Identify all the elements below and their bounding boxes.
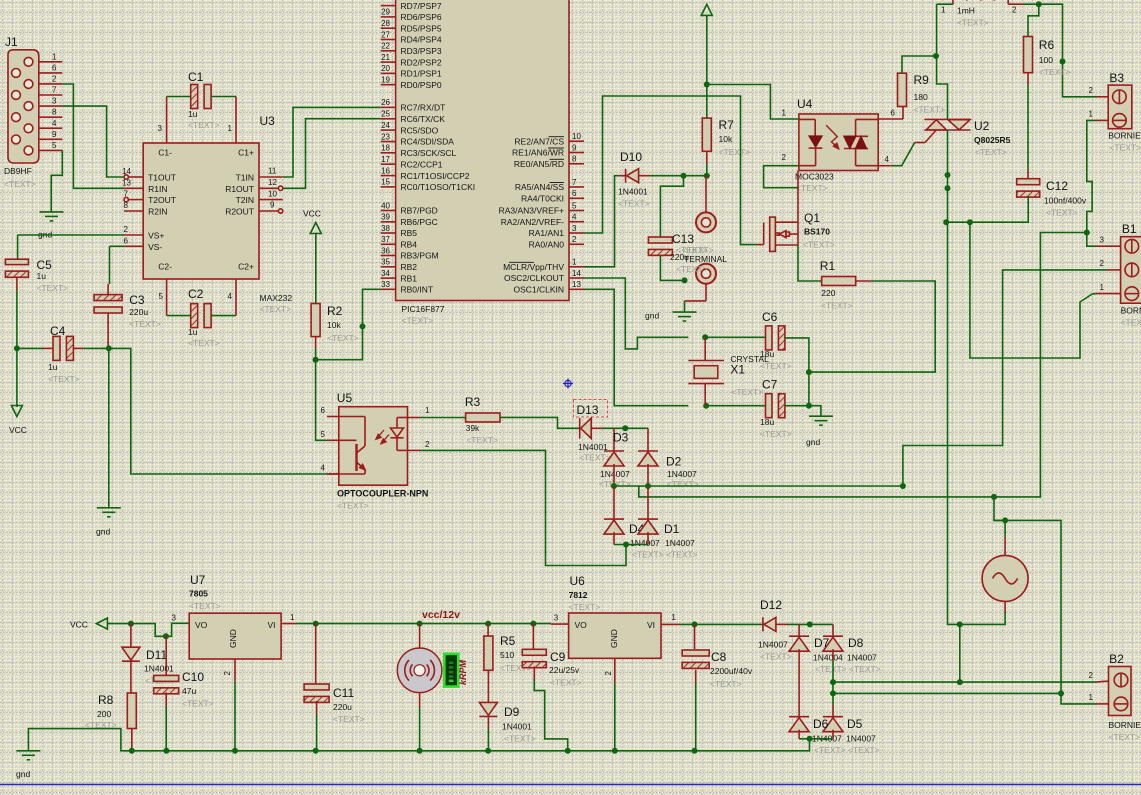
svg-text:RD7/PSP7: RD7/PSP7 [401, 1, 442, 11]
svg-text:10: 10 [572, 132, 581, 141]
wire U4 pin4 to triac gate [892, 143, 915, 166]
U7 pin2 stub [223, 659, 235, 681]
U3 pin 5 number [159, 292, 164, 301]
crystal X1 [688, 337, 724, 405]
U2 text [975, 147, 1007, 157]
label D9 value 1N4001 [502, 722, 532, 732]
wire C10 bottom green [165, 706, 167, 751]
wire OSC1 to crystal [584, 289, 688, 405]
wire B3 pin1 down [1087, 120, 1096, 246]
svg-text:VCC: VCC [9, 425, 27, 435]
label C10 [182, 670, 204, 684]
svg-text:2: 2 [52, 74, 57, 83]
U1 text [402, 316, 434, 326]
C11 text [333, 714, 365, 724]
svg-text:<TEXT>: <TEXT> [618, 199, 650, 209]
label J1 [5, 35, 18, 49]
svg-text:D1: D1 [664, 522, 680, 536]
svg-text:RB6/PGC: RB6/PGC [401, 217, 438, 227]
svg-text:16: 16 [381, 166, 390, 175]
svg-text:<TEXT>: <TEXT> [676, 264, 708, 274]
svg-text:1u: 1u [188, 327, 198, 337]
svg-text:1N4007: 1N4007 [665, 538, 695, 548]
svg-text:U5: U5 [337, 391, 353, 405]
node on RB0 wire [360, 323, 366, 329]
wire C4 right to U5 pin4 [84, 348, 339, 474]
label R5 value 510 [500, 650, 514, 660]
svg-text:RB3/PGM: RB3/PGM [401, 251, 439, 261]
wire motor bottom [419, 693, 421, 707]
svg-text:RA5/AN4/SS: RA5/AN4/SS [515, 182, 564, 192]
resistor R8 [127, 693, 136, 729]
C6 text [760, 361, 792, 371]
C3 top stub [107, 284, 109, 295]
D8 top stub [832, 624, 834, 636]
svg-text:100nf/400v: 100nf/400v [1044, 196, 1087, 206]
svg-text:RE1/AN6/WR: RE1/AN6/WR [512, 148, 564, 158]
U4 pin6 stub [878, 109, 903, 120]
label D3 value 1N4007 [600, 469, 630, 479]
wire gnd net VS+ [18, 234, 124, 236]
U6 pin1 stub [661, 613, 680, 624]
svg-text:26: 26 [381, 98, 390, 107]
C8 text [710, 679, 742, 689]
U6 text [569, 602, 601, 612]
node mid wire [900, 483, 906, 489]
label gnd J1 [38, 230, 52, 240]
D6 bottom stub [798, 730, 800, 739]
svg-text:<TEXT>: <TEXT> [760, 429, 792, 439]
wire U6 out [680, 623, 763, 625]
label R9 value 180 [914, 92, 928, 102]
svg-text:D9: D9 [504, 705, 520, 719]
D8 text [849, 664, 881, 674]
sine bottom stub [1004, 601, 1006, 612]
node C10 branch [163, 633, 169, 639]
B1 text [1121, 318, 1141, 328]
C12 text [1046, 208, 1078, 218]
svg-text:PIC16F877: PIC16F877 [402, 304, 445, 314]
node C9 top [530, 621, 536, 627]
B1 pin3 stub [1096, 236, 1121, 247]
svg-text:10: 10 [268, 189, 277, 198]
U5 internal transistor and led [339, 417, 408, 475]
U5 text [337, 501, 369, 511]
label D9 [504, 705, 520, 719]
wire D10 to nodes [650, 175, 707, 177]
wire U3 T1IN to RC7 [283, 107, 381, 177]
diode D8 [823, 636, 843, 651]
label R2 [327, 304, 343, 318]
label D3 [613, 431, 629, 445]
wire to VCC down arrow [16, 348, 18, 407]
R3 text [466, 435, 498, 445]
svg-text:<TEXT>: <TEXT> [182, 699, 214, 709]
wire U3 R1OUT to RC6 [283, 119, 381, 189]
U3 value text [260, 304, 292, 314]
power VCC down-left [11, 406, 22, 417]
svg-text:DB9HF: DB9HF [4, 166, 32, 176]
label D4 [629, 522, 645, 536]
diode D11 [122, 647, 140, 661]
label U4 [797, 97, 813, 111]
svg-text:7812: 7812 [569, 590, 588, 600]
label D2 [666, 455, 682, 469]
label R7 value 10k [719, 134, 733, 144]
label C3 value 220u [129, 307, 148, 317]
U4 pin4 stub [878, 155, 891, 166]
regulator U7 7805 body [189, 613, 281, 659]
svg-text:18u: 18u [760, 417, 774, 427]
wire C3 bottom stub [107, 313, 109, 348]
node bridge left mid [611, 483, 617, 489]
svg-text:T2OUT: T2OUT [148, 195, 176, 205]
wire R5 to D9 [487, 670, 489, 702]
wire R1 right stub [856, 280, 872, 282]
diode D4 [604, 519, 624, 534]
wire D12 right [787, 623, 833, 625]
label D4 value 1N4007 [630, 538, 660, 548]
svg-text:C2+: C2+ [238, 262, 254, 272]
label C9 [550, 650, 566, 664]
svg-text:<TEXT>: <TEXT> [48, 374, 80, 384]
label MAX232 [260, 293, 293, 303]
B2 text [1109, 732, 1141, 742]
svg-text:U3: U3 [260, 114, 276, 128]
svg-text:9: 9 [270, 201, 275, 210]
svg-text:T1IN: T1IN [236, 173, 254, 183]
svg-text:<TEXT>: <TEXT> [569, 602, 601, 612]
svg-text:<TEXT>: <TEXT> [4, 179, 36, 189]
node B2 pin2 net [957, 679, 963, 685]
svg-text:1N4001: 1N4001 [618, 187, 648, 197]
wire C1 left [167, 96, 191, 98]
svg-text:D13: D13 [577, 403, 599, 417]
wire VCC to U7 pin3 [107, 623, 189, 636]
node lower net [991, 494, 997, 500]
wire sine net left [994, 497, 1061, 694]
svg-text:D5: D5 [847, 717, 863, 731]
svg-text:C12: C12 [1046, 179, 1068, 193]
svg-text:12: 12 [268, 178, 277, 187]
capacitor C6 [766, 326, 785, 350]
wire L1 pin2 to top rail [1023, 4, 1096, 97]
svg-text:RB4: RB4 [401, 240, 418, 250]
svg-text:180: 180 [914, 92, 928, 102]
label C6 [762, 310, 778, 324]
D7 top stub [798, 624, 800, 636]
origin marker [563, 379, 573, 389]
wire U6 gnd down [614, 684, 616, 751]
svg-text:B1: B1 [1122, 222, 1137, 236]
C10 text [182, 699, 214, 709]
svg-text:<TEXT>: <TEXT> [632, 550, 664, 560]
svg-text:28: 28 [381, 19, 390, 28]
node rail C11 [313, 748, 319, 754]
label C8 [711, 650, 727, 664]
capacitor C7 [766, 394, 785, 418]
svg-text:D7: D7 [814, 636, 830, 650]
U1 left pin stubs and numbers [381, 6, 396, 290]
label R9 [914, 73, 930, 87]
svg-text:<TEXT>: <TEXT> [666, 550, 698, 560]
svg-text:BORNIER3: BORNIER3 [1121, 306, 1141, 316]
label D10 value 1N4001 [618, 187, 648, 197]
wire R2 bottom [315, 337, 317, 349]
resistor R7 [702, 118, 711, 151]
svg-text:C6: C6 [762, 310, 778, 324]
label U7 [190, 573, 206, 587]
D5 text [848, 745, 880, 755]
U3 pin5 stub [166, 279, 168, 316]
svg-text:19: 19 [381, 76, 390, 85]
node C11 top [313, 621, 319, 627]
svg-text:<TEXT>: <TEXT> [129, 319, 161, 329]
svg-text:J1: J1 [5, 35, 18, 49]
svg-text:gnd: gnd [806, 437, 820, 447]
svg-text:6: 6 [572, 189, 577, 198]
wire bridge bottom [614, 544, 648, 546]
U6 pin3 stub [551, 614, 569, 625]
svg-text:15: 15 [381, 178, 390, 187]
wire VCC top to R7 [706, 15, 708, 118]
svg-text:C9: C9 [550, 650, 566, 664]
svg-text:3: 3 [1100, 236, 1105, 245]
label C4 [50, 324, 66, 338]
label D10 [620, 150, 642, 164]
ground C13 net [673, 312, 697, 321]
svg-text:RD6/PSP6: RD6/PSP6 [401, 12, 442, 22]
label U6 [570, 574, 586, 588]
wire U7 out rail [297, 623, 551, 625]
U5 pin4 stub [327, 473, 339, 475]
node rail D9 [485, 748, 491, 754]
R7 text [719, 147, 751, 157]
svg-text:RD2/PSP2: RD2/PSP2 [401, 57, 442, 67]
svg-text:C4: C4 [50, 324, 66, 338]
wire C11 bottom green [316, 714, 318, 751]
svg-text:3: 3 [158, 124, 163, 133]
D5 top stub [832, 705, 834, 717]
svg-text:C2-: C2- [158, 262, 172, 272]
wire VCC to U4 pin1 [707, 85, 799, 120]
svg-text:<TEXT>: <TEXT> [466, 435, 498, 445]
wire R9 top [902, 56, 936, 73]
svg-text:33: 33 [381, 280, 390, 289]
svg-text:<TEXT>: <TEXT> [676, 245, 708, 255]
label C5 [37, 258, 53, 272]
node bridge right mid [645, 483, 651, 489]
wire B2 pin1 [1061, 693, 1096, 704]
svg-text:1N4007: 1N4007 [846, 734, 876, 744]
svg-text:8: 8 [572, 155, 577, 164]
wire RB0 to R2 node [316, 289, 381, 359]
wire U7 gnd down [234, 681, 236, 751]
D13 text [579, 453, 611, 463]
wire C10 bottom [165, 692, 167, 706]
svg-text:C1-: C1- [158, 148, 172, 158]
svg-text:RB7/PGD: RB7/PGD [401, 206, 438, 216]
svg-text:RB5: RB5 [401, 228, 418, 238]
svg-text:1u: 1u [188, 109, 198, 119]
label TERMINAL [684, 254, 727, 264]
diode D7 [789, 636, 809, 651]
U4 internal led and triac [799, 119, 878, 165]
svg-text:5: 5 [159, 292, 164, 301]
svg-text:TERMINAL: TERMINAL [684, 254, 727, 264]
label X1 [730, 363, 745, 377]
node rail U7gnd [232, 748, 238, 754]
regulator U6 7812 body [569, 613, 661, 658]
wire B1 pin1 branch [970, 222, 1096, 358]
label U2 [974, 119, 990, 133]
svg-text:R1: R1 [820, 259, 836, 273]
node U6 out [692, 621, 698, 627]
svg-text:D2: D2 [666, 455, 682, 469]
svg-text:2: 2 [604, 670, 613, 675]
wire D13 to bridge top green [602, 427, 648, 429]
svg-text:<TEXT>: <TEXT> [821, 301, 853, 311]
capacitor C2 [191, 304, 211, 328]
svg-text:C8: C8 [711, 650, 727, 664]
svg-text:29: 29 [381, 8, 390, 17]
C2 text [188, 338, 220, 348]
svg-text:R9: R9 [914, 73, 930, 87]
svg-text:220: 220 [821, 288, 835, 298]
label D2 value 1N4007 [667, 469, 697, 479]
svg-text:1N4007: 1N4007 [667, 469, 697, 479]
wire C3 top [109, 246, 111, 284]
U7 pin1 stub [281, 613, 296, 624]
svg-text:37: 37 [381, 235, 390, 244]
svg-text:RC5/SDO: RC5/SDO [401, 125, 439, 135]
node rail R8 [129, 748, 135, 754]
D12 text [760, 652, 792, 662]
U5 pin1 stub [408, 417, 421, 419]
svg-text:25: 25 [381, 110, 390, 119]
svg-text:<TEXT>: <TEXT> [914, 105, 946, 115]
svg-text:8: 8 [52, 108, 57, 117]
C9 text [550, 678, 582, 688]
svg-text:1N4001: 1N4001 [144, 664, 174, 674]
svg-text:<TEXT>: <TEXT> [1121, 318, 1141, 328]
svg-text:7: 7 [124, 190, 129, 199]
svg-text:U7: U7 [190, 573, 206, 587]
svg-text:3: 3 [172, 614, 177, 623]
label D8 [848, 636, 864, 650]
wire R3 to D13 [500, 417, 580, 428]
wire C12 bottom [946, 196, 1028, 222]
U4 pin1 number [782, 109, 787, 118]
svg-text:OPTOCOUPLER-NPN: OPTOCOUPLER-NPN [337, 489, 428, 499]
wire triac net to sine area [960, 612, 1005, 624]
wire RA1 up and over [584, 96, 757, 245]
svg-text:4: 4 [52, 119, 57, 128]
wire R1 to gnd net [872, 280, 908, 282]
node crystal top [702, 334, 708, 340]
C4 text [48, 374, 80, 384]
node C13 gnd net [682, 277, 688, 283]
svg-text:C3: C3 [129, 293, 145, 307]
node R5 top [485, 621, 491, 627]
resistor R6 [1024, 37, 1033, 73]
svg-text:GND: GND [609, 629, 619, 648]
terminal bottom [696, 264, 716, 301]
svg-text:<TEXT>: <TEXT> [402, 316, 434, 326]
svg-text:<TEXT>: <TEXT> [1046, 208, 1078, 218]
svg-text:MCLR/Vpp/THV: MCLR/Vpp/THV [503, 262, 564, 272]
svg-text:22u/25v: 22u/25v [549, 665, 580, 675]
svg-text:RC2/CCP1: RC2/CCP1 [401, 159, 443, 169]
node bridge top [622, 425, 628, 431]
U3 pin 4 number [228, 292, 233, 301]
svg-text:220u: 220u [333, 702, 352, 712]
wire L1 pin1 down to triac [937, 4, 948, 119]
connector J1 DB9 [8, 50, 62, 163]
node R9 vcc line [933, 53, 939, 59]
node triac d2 [945, 185, 951, 191]
label BORNIER3 [1121, 306, 1141, 316]
U3 left pin numbers [122, 167, 131, 245]
wire C8 bottom [695, 670, 697, 683]
label C11 [333, 686, 354, 700]
svg-text:R2OUT: R2OUT [225, 207, 254, 217]
B1 pin2 stub [1100, 259, 1121, 270]
svg-text:T2IN: T2IN [236, 195, 254, 205]
node rail C8 [692, 748, 698, 754]
ground J1 [40, 212, 64, 221]
svg-text:2: 2 [223, 670, 232, 675]
svg-text:<TEXT>: <TEXT> [796, 183, 828, 193]
D3 top stub [613, 428, 615, 451]
svg-text:R2IN: R2IN [148, 207, 167, 217]
svg-text:Q8025R5: Q8025R5 [974, 135, 1011, 145]
label gnd C3 net [96, 527, 110, 537]
X1 text [731, 387, 763, 397]
svg-text:C10: C10 [182, 670, 204, 684]
U5 pin 1 number [425, 406, 430, 415]
svg-text:U4: U4 [797, 97, 813, 111]
svg-text:RB2: RB2 [401, 262, 418, 272]
svg-text:2: 2 [124, 225, 129, 234]
node top rail [1036, 1, 1042, 7]
svg-text:200: 200 [97, 709, 111, 719]
node C5-C4-VCC junction [14, 345, 20, 351]
label VCC mid [303, 209, 321, 219]
wire J1 pin2 to U3 R1IN [62, 84, 124, 188]
capacitor C13 [648, 237, 672, 255]
wire C11 top stub [315, 624, 317, 685]
capacitor C8 [682, 650, 709, 668]
C3 text [129, 319, 161, 329]
svg-text:1N4001: 1N4001 [502, 722, 532, 732]
svg-text:RD1/PSP1: RD1/PSP1 [401, 69, 442, 79]
label C1 value 1u [188, 109, 198, 119]
svg-text:5: 5 [52, 141, 57, 150]
svg-text:RD3/PSP3: RD3/PSP3 [401, 46, 442, 56]
node R7-D10 [704, 173, 710, 179]
terminal bottom lead [685, 300, 707, 302]
svg-text:D11: D11 [146, 648, 167, 662]
U5 pin5 stub [327, 439, 339, 441]
svg-text:R6: R6 [1039, 38, 1055, 52]
svg-text:R3: R3 [465, 395, 481, 409]
resistor R3 [466, 413, 500, 422]
svg-text:3: 3 [572, 224, 577, 233]
label D11 value 1N4001 [144, 664, 174, 674]
label R8 [98, 693, 114, 707]
svg-text:1u: 1u [48, 362, 58, 372]
